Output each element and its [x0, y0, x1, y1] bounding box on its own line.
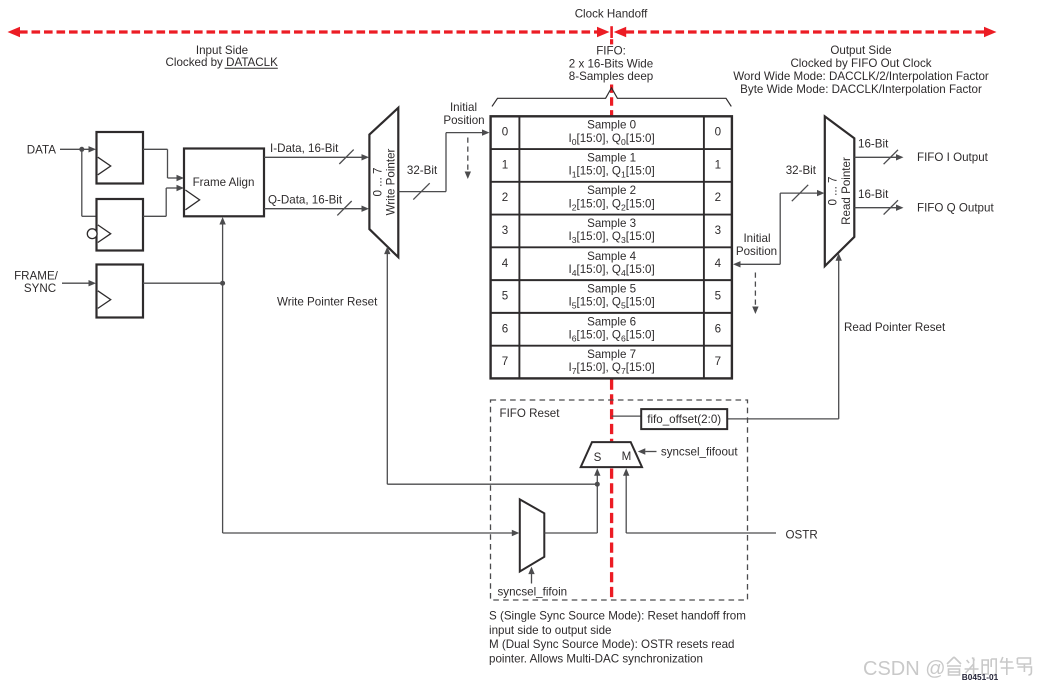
wire read mux 32-bit input — [780, 192, 819, 194]
svg-text:I-Data, 16-Bit: I-Data, 16-Bit — [270, 142, 339, 155]
svg-text:M (Dual Sync Source Mode): OST: M (Dual Sync Source Mode): OSTR resets r… — [489, 638, 734, 651]
svg-text:Clocked by FIFO Out Clock: Clocked by FIFO Out Clock — [790, 57, 931, 70]
svg-text:FIFO Q Output: FIFO Q Output — [917, 202, 994, 215]
red arrowhead center pointing left — [614, 27, 627, 38]
wire DATA branch down to lower flip-flop — [81, 149, 83, 216]
red arrowhead far left — [8, 27, 21, 38]
red vertical dashed segment below center bar — [610, 39, 613, 44]
red arrowhead center pointing right — [597, 27, 610, 38]
block Frame Align U1 — [184, 149, 264, 217]
FIFO table row divider 3 — [491, 214, 732, 216]
mux Write Pointer — [369, 108, 398, 257]
FIFO table row divider 5 — [491, 279, 732, 281]
svg-text:Read Pointer: Read Pointer — [840, 157, 853, 225]
wire sync down to syncsel_fifoin mux — [222, 283, 224, 533]
dashed read pointer advance arrow — [754, 273, 756, 308]
svg-text:Output Side: Output Side — [830, 44, 891, 57]
svg-text:syncsel_fifoin: syncsel_fifoin — [498, 585, 568, 598]
svg-text:3: 3 — [715, 224, 721, 237]
wire FF3 output / sync net — [143, 282, 223, 284]
flip-flop FF3 (frame sync latch) — [97, 265, 144, 318]
svg-text:Sample 2: Sample 2 — [587, 184, 636, 197]
svg-text:Sample 1: Sample 1 — [587, 151, 636, 164]
svg-text:Initial: Initial — [450, 101, 477, 114]
svg-text:Sample 7: Sample 7 — [587, 348, 636, 361]
svg-text:Initial: Initial — [743, 232, 770, 245]
svg-text:0: 0 — [502, 126, 508, 139]
wire Write Pointer Reset — [384, 247, 390, 255]
svg-text:Frame Align: Frame Align — [193, 176, 255, 189]
svg-text:Write Pointer: Write Pointer — [384, 148, 397, 215]
FIFO storage table outer frame — [491, 116, 732, 378]
mux syncsel_fifoin select — [520, 499, 545, 571]
svg-text:Sample 6: Sample 6 — [587, 315, 636, 328]
FIFO table row divider 2 — [491, 181, 732, 183]
bus slash write 32-bit — [413, 183, 429, 199]
wire I-Data bus — [264, 156, 364, 158]
wire FIFO Q Output — [854, 207, 898, 209]
svg-text:Input Side: Input Side — [196, 44, 248, 57]
dashed write pointer advance arrow — [467, 138, 469, 173]
svg-text:I7[15:0], Q7[15:0]: I7[15:0], Q7[15:0] — [568, 361, 654, 376]
wire Read Pointer Reset — [836, 253, 842, 261]
svg-text:Byte Wide Mode: DACCLK/Interpo: Byte Wide Mode: DACCLK/Interpolation Fac… — [740, 83, 982, 96]
svg-text:fifo_offset(2:0): fifo_offset(2:0) — [647, 413, 721, 426]
svg-text:2 x 16-Bits Wide: 2 x 16-Bits Wide — [569, 57, 653, 70]
bus slash FIFO Q output — [884, 200, 898, 214]
svg-text:SYNC: SYNC — [24, 282, 56, 295]
svg-text:4: 4 — [502, 257, 509, 270]
wire FRAME/SYNC input — [62, 282, 91, 284]
FIFO table row divider 4 — [491, 246, 732, 248]
svg-text:7: 7 — [502, 355, 508, 368]
watermark glyph 4 — [1000, 657, 1014, 675]
FIFO table row divider 6 — [491, 312, 732, 314]
watermark glyph 3 — [982, 659, 996, 675]
node DATA junction — [79, 147, 84, 152]
wire Q-Data bus — [264, 208, 364, 210]
svg-text:Read Pointer Reset: Read Pointer Reset — [844, 321, 946, 334]
svg-text:Position: Position — [736, 245, 777, 258]
svg-text:M: M — [622, 450, 632, 463]
svg-text:16-Bit: 16-Bit — [858, 188, 889, 201]
red vertical dashed segment above FIFO table — [610, 85, 613, 116]
svg-text:FIFO Reset: FIFO Reset — [500, 407, 561, 420]
svg-text:input side to output side: input side to output side — [489, 624, 611, 637]
flip-flop FF1 (I latch) — [97, 132, 144, 184]
svg-text:6: 6 — [502, 322, 508, 335]
svg-text:S: S — [594, 451, 602, 464]
flip-flop FF2 (Q latch, inverted clock) — [97, 199, 144, 251]
svg-text:Position: Position — [443, 114, 484, 127]
wire DATA input — [60, 148, 91, 150]
FIFO table row divider 1 — [491, 148, 732, 150]
wire FF1 output to Frame Align — [143, 148, 168, 150]
svg-text:pointer. Allows Multi-DAC sync: pointer. Allows Multi-DAC synchronizatio… — [489, 652, 703, 665]
svg-text:I6[15:0], Q6[15:0]: I6[15:0], Q6[15:0] — [568, 329, 654, 344]
svg-text:Sample 4: Sample 4 — [587, 250, 637, 263]
svg-text:4: 4 — [715, 257, 722, 270]
svg-text:32-Bit: 32-Bit — [407, 164, 438, 177]
bus slash Q-Data — [337, 201, 351, 215]
svg-text:5: 5 — [715, 290, 721, 303]
svg-text:I0[15:0], Q0[15:0]: I0[15:0], Q0[15:0] — [568, 132, 654, 147]
svg-text:0 ... 7: 0 ... 7 — [371, 167, 384, 196]
svg-text:2: 2 — [502, 191, 508, 204]
svg-text:1: 1 — [502, 158, 508, 171]
svg-text:7: 7 — [715, 355, 721, 368]
svg-text:I2[15:0], Q2[15:0]: I2[15:0], Q2[15:0] — [568, 197, 654, 212]
svg-text:syncsel_fifoout: syncsel_fifoout — [661, 446, 738, 459]
watermark glyph 5 — [1017, 658, 1031, 675]
bus slash read 32-bit — [792, 185, 808, 201]
brace above FIFO table — [492, 88, 731, 107]
svg-text:0 ... 7: 0 ... 7 — [826, 176, 839, 205]
svg-text:8-Samples deep: 8-Samples deep — [569, 70, 653, 83]
FIFO Reset dashed boundary box — [491, 400, 748, 600]
wire red clock-domain dashed line left half — [19, 30, 598, 33]
svg-text:Clocked by DATACLK: Clocked by DATACLK — [166, 56, 279, 69]
svg-text:Clock Handoff: Clock Handoff — [575, 8, 648, 21]
bus slash I-Data — [339, 150, 353, 164]
wire FIFO I Output — [854, 156, 898, 158]
red center bar — [610, 26, 613, 38]
svg-text:S (Single Sync Source Mode): R: S (Single Sync Source Mode): Reset hando… — [489, 610, 746, 623]
wire syncsel_fifoin output — [544, 532, 597, 534]
red arrowhead far right — [984, 27, 997, 38]
red vertical dashed segment below FIFO table to mux — [610, 380, 613, 442]
FIFO table row divider 7 — [491, 345, 732, 347]
svg-text:Word Wide Mode: DACCLK/2/Inter: Word Wide Mode: DACCLK/2/Interpolation F… — [733, 70, 989, 83]
svg-text:Q-Data, 16-Bit: Q-Data, 16-Bit — [268, 193, 343, 206]
watermark glyph 2 — [965, 658, 979, 676]
svg-text:5: 5 — [502, 290, 508, 303]
watermark glyph 1 — [947, 657, 961, 675]
svg-text:I3[15:0], Q3[15:0]: I3[15:0], Q3[15:0] — [568, 230, 654, 245]
svg-text:I1[15:0], Q1[15:0]: I1[15:0], Q1[15:0] — [568, 165, 654, 180]
wire S input — [594, 468, 600, 476]
wire syncsel_fifoin select input — [528, 567, 534, 575]
wire syncsel_fifoout select — [638, 448, 646, 454]
svg-text:DATA: DATA — [27, 143, 56, 156]
wire sync up into Frame Align — [222, 223, 224, 284]
block fifo_offset(2:0) — [641, 409, 727, 429]
svg-text:Write Pointer Reset: Write Pointer Reset — [277, 295, 378, 308]
svg-text:6: 6 — [715, 322, 721, 335]
svg-text:I4[15:0], Q4[15:0]: I4[15:0], Q4[15:0] — [568, 263, 654, 278]
svg-text:Sample 0: Sample 0 — [587, 119, 636, 132]
svg-text:CSDN @: CSDN @ — [863, 658, 946, 680]
svg-text:FIFO:: FIFO: — [596, 45, 626, 58]
svg-text:1: 1 — [715, 158, 721, 171]
svg-text:16-Bit: 16-Bit — [858, 138, 889, 151]
wire FF2 output to Frame Align — [143, 215, 166, 217]
FIFO table inner column lines — [518, 116, 520, 378]
svg-text:B0451-01: B0451-01 — [962, 672, 999, 682]
wire fifo_offset to red line — [612, 415, 642, 417]
svg-text:3: 3 — [502, 224, 508, 237]
node sync junction — [220, 281, 225, 286]
wire M input from OSTR — [623, 468, 629, 476]
node S junction — [595, 482, 600, 487]
svg-text:FIFO I Output: FIFO I Output — [917, 151, 989, 164]
svg-text:2: 2 — [715, 191, 721, 204]
mux Read Pointer — [825, 116, 855, 266]
svg-text:32-Bit: 32-Bit — [786, 164, 817, 177]
svg-text:Sample 5: Sample 5 — [587, 283, 636, 296]
svg-text:Sample 3: Sample 3 — [587, 217, 636, 230]
red vertical dashed segment below S-M mux — [610, 469, 613, 601]
svg-text:0: 0 — [715, 126, 721, 139]
svg-text:FRAME/: FRAME/ — [14, 269, 59, 282]
svg-text:OSTR: OSTR — [786, 529, 818, 542]
wire red clock-domain dashed line right half — [626, 30, 986, 33]
svg-text:I5[15:0], Q5[15:0]: I5[15:0], Q5[15:0] — [568, 296, 654, 311]
mux S-M sync select (fifoout) — [581, 442, 642, 467]
wire write mux 32-bit output — [398, 191, 446, 193]
bus slash FIFO I output — [884, 150, 898, 164]
